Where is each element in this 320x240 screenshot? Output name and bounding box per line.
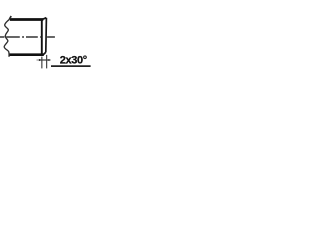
svg-text:2x30°: 2x30° <box>60 55 87 67</box>
wire: centerline dash 3 <box>26 36 38 38</box>
wire: top chamfer diagonal <box>43 18 47 20</box>
wire: dimension line <box>39 59 50 61</box>
wire: break line squiggle top tick <box>10 16 12 19</box>
wire: bottom outline of shaft <box>9 53 44 56</box>
node: left arrowhead <box>39 59 42 61</box>
wire: end face line <box>45 18 48 52</box>
wire: dimension line left tail <box>37 59 40 61</box>
wire: break line squiggle <box>4 16 11 57</box>
wire: leader shelf under text <box>51 65 91 67</box>
wire: centerline dash 2 <box>6 36 20 38</box>
wire: centerline dot 1 <box>22 36 24 38</box>
wire: centerline dash 1 <box>0 36 4 38</box>
wire: centerline dash 4 <box>47 36 55 38</box>
node: right arrowhead <box>47 59 49 61</box>
wire: right extension line <box>46 55 48 69</box>
wire: dimension line right tail <box>50 59 51 61</box>
wire: left extension line <box>41 57 43 69</box>
wire: centerline dot 2 <box>40 36 41 38</box>
wire: bottom chamfer diagonal <box>43 52 46 55</box>
wire: top outline of shaft <box>10 18 43 21</box>
wire: chamfer start vertical (thick) <box>41 19 43 56</box>
